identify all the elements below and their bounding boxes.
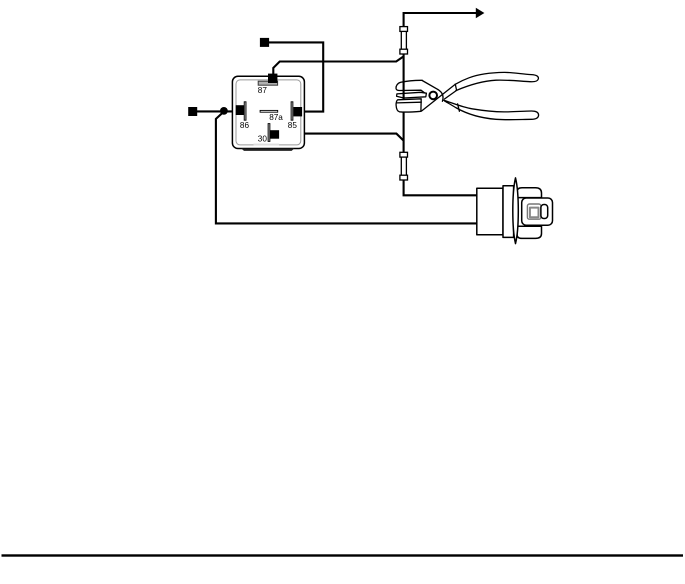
svg-text:87a: 87a [269, 113, 283, 122]
svg-text:30: 30 [258, 134, 268, 143]
svg-text:85: 85 [288, 121, 298, 130]
svg-text:86: 86 [240, 121, 250, 130]
svg-text:87: 87 [258, 86, 268, 95]
